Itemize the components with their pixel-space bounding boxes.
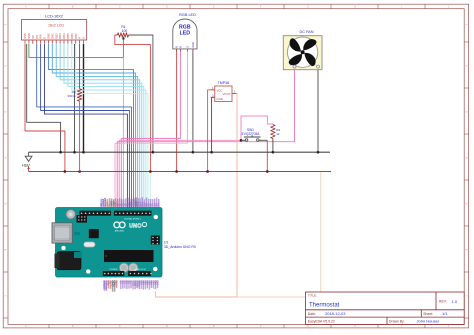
- svg-text:330 Ω: 330 Ω: [67, 94, 76, 98]
- wire LCD DB7 to Arduino: [76, 44, 148, 208]
- svg-text:1: 1: [465, 24, 469, 26]
- svg-text:A: A: [25, 325, 27, 328]
- svg-text:1/1: 1/1: [442, 311, 448, 316]
- svg-text:C: C: [119, 325, 121, 328]
- resistor R3 330 ohm (LCD backlight): [67, 44, 81, 172]
- wire LCD K to ground rail (thick): [83, 44, 85, 152]
- wire RGB LED pin3 to Arduino (light pink): [115, 49, 188, 208]
- ground rail net: [29, 151, 330, 153]
- wire LCD pin to Arduino (blue, x=127.4): [45, 44, 128, 208]
- wire LCD RW to ground rail: [74, 44, 76, 152]
- svg-text:DIGITAL (PWM~): DIGITAL (PWM~): [124, 217, 141, 220]
- svg-text:4: 4: [3, 157, 7, 159]
- svg-text:Drawn By:: Drawn By:: [389, 319, 405, 323]
- svg-text:GND: GND: [216, 97, 224, 101]
- wire RGB LED pin2 to Arduino (pink): [121, 49, 180, 208]
- svg-text:DC FAN: DC FAN: [300, 30, 314, 34]
- svg-text:D: D: [166, 5, 168, 8]
- RGB LED: [173, 13, 197, 52]
- svg-text:Sheet:: Sheet:: [423, 312, 433, 316]
- svg-text:E: E: [213, 325, 215, 328]
- svg-text:John Houser: John Houser: [417, 319, 440, 324]
- svg-text:G: G: [186, 46, 190, 48]
- svg-text:EasyEDA V5.9.22: EasyEDA V5.9.22: [308, 319, 335, 323]
- svg-text:1: 1: [3, 24, 7, 26]
- wire R1 left to +5V rail (red): [115, 35, 151, 172]
- +5V rail net: [29, 171, 331, 173]
- svg-text:+5V: +5V: [22, 163, 31, 168]
- svg-text:3: 3: [3, 111, 7, 113]
- svg-text:1k: 1k: [276, 132, 280, 136]
- svg-text:C: C: [119, 5, 121, 8]
- wire fan - to ground rail: [317, 70, 319, 153]
- svg-text:EVQ22705A: EVQ22705A: [242, 132, 261, 136]
- temperature sensor TMP36: [211, 81, 237, 101]
- wire LCD DB4 to Arduino: [64, 44, 142, 208]
- svg-text:2: 2: [465, 65, 469, 67]
- node junction green wire at R1: [122, 36, 125, 57]
- svg-text:2018-12-03: 2018-12-03: [325, 311, 346, 316]
- svg-text:J: J: [448, 5, 450, 8]
- svg-text:5: 5: [3, 203, 7, 205]
- svg-text:4: 4: [465, 157, 469, 159]
- svg-text:Thermostat: Thermostat: [309, 302, 340, 308]
- resistor R2 1k: [271, 125, 281, 139]
- wire SW1 node to Arduino (pink): [119, 140, 241, 207]
- svg-text:VOUT: VOUT: [222, 92, 231, 96]
- title block: [306, 292, 465, 324]
- svg-text:H: H: [354, 325, 356, 328]
- ground symbol: [25, 152, 32, 161]
- wire R1 node down to Arduino D-pin (lavender): [122, 58, 124, 208]
- svg-text:K: K: [82, 37, 86, 39]
- wire LCD A to R1 (green): [29, 44, 124, 58]
- svg-text:16x2 LCD: 16x2 LCD: [48, 23, 64, 27]
- svg-text:F: F: [260, 5, 262, 8]
- +5V power symbol: [22, 163, 31, 172]
- svg-text:LCD-16X2: LCD-16X2: [45, 15, 63, 19]
- junction dots on +5V rail: [64, 170, 269, 173]
- svg-text:F: F: [260, 325, 262, 328]
- svg-text:B: B: [72, 325, 74, 328]
- svg-text:TITLE:: TITLE:: [308, 294, 317, 298]
- svg-text:G: G: [307, 5, 309, 8]
- svg-text:I: I: [401, 5, 402, 8]
- svg-text:ANALOG IN: ANALOG IN: [135, 268, 146, 271]
- svg-text:D: D: [166, 325, 168, 328]
- wire fan + to Arduino (pink): [117, 70, 294, 208]
- Arduino designator U1: [164, 240, 196, 248]
- Arduino bottom pin labels: [102, 280, 159, 292]
- svg-text:REV:: REV:: [439, 300, 447, 304]
- wire LCD DB3 to Arduino: [60, 44, 140, 208]
- wire LCD DB1 to Arduino: [52, 44, 135, 208]
- wire +5V rail to Arduino pin (teal): [149, 172, 151, 208]
- wire salmon branch right vertical: [237, 172, 321, 297]
- svg-text:R: R: [178, 46, 182, 48]
- svg-text:H: H: [354, 5, 356, 8]
- svg-text:U1: U1: [164, 240, 168, 244]
- svg-text:TMP36: TMP36: [218, 81, 230, 85]
- svg-text:B: B: [175, 46, 179, 48]
- svg-text:E: E: [213, 5, 215, 8]
- svg-text:VIN: VIN: [114, 281, 118, 286]
- svg-text:3D_Arduino UNO R3: 3D_Arduino UNO R3: [164, 245, 196, 249]
- svg-text:Date:: Date:: [308, 312, 316, 316]
- wire SW1 right to +5V rail (red): [266, 140, 268, 171]
- svg-text:G: G: [307, 325, 309, 328]
- svg-text:3: 3: [212, 93, 214, 97]
- wire LCD pin to Arduino (blue, x=131.5): [37, 44, 132, 208]
- junction dots on ground rail: [59, 151, 319, 154]
- junction dot SW1 node: [240, 139, 243, 142]
- svg-text:B: B: [72, 5, 74, 8]
- wire SW1 node loop to R2 top (pink): [241, 116, 273, 140]
- svg-text:I: I: [401, 325, 402, 328]
- Arduino top pin labels: [99, 197, 160, 207]
- wire R2 bottom to ground rail: [272, 139, 274, 153]
- svg-text:UNO: UNO: [129, 223, 142, 229]
- svg-text:POWER: POWER: [110, 269, 118, 271]
- svg-text:5: 5: [465, 203, 469, 205]
- wire LCD VSS to ground rail: [27, 44, 61, 152]
- wire LCD VDD to +5V rail: [25, 44, 65, 172]
- wire TMP36 GND to ground rail: [212, 97, 215, 152]
- wire TMP36 VOUT to Arduino A0 (salmon): [155, 94, 237, 298]
- svg-text:1.0: 1.0: [452, 299, 458, 304]
- svg-text:NC: NC: [155, 281, 159, 285]
- wire LCD DB6 to Arduino: [72, 44, 146, 208]
- wire RGB LED pin4 to ground rail: [192, 49, 194, 152]
- svg-text:A: A: [25, 5, 27, 8]
- resistor R1 100: [115, 25, 129, 37]
- svg-text:2: 2: [3, 65, 7, 67]
- wire LCD DB2 to Arduino: [56, 44, 137, 208]
- svg-text:2: 2: [234, 90, 236, 94]
- svg-text:ARDUINO: ARDUINO: [115, 230, 125, 233]
- LCD display LCD-16X2: [21, 15, 86, 44]
- wire LCD DB0 to Arduino: [48, 44, 133, 208]
- wire R1 right to ground rail (gray): [129, 35, 153, 152]
- Arduino UNO R3 U1: [52, 208, 162, 278]
- wire LCD pin to Arduino (blue, x=129.4): [41, 44, 130, 208]
- wire LCD DB5 to Arduino: [68, 44, 144, 208]
- svg-text:3: 3: [465, 111, 469, 113]
- svg-text:6: 6: [3, 249, 7, 251]
- svg-text:J: J: [448, 325, 450, 328]
- svg-text:7: 7: [465, 295, 469, 297]
- svg-text:6: 6: [465, 249, 469, 251]
- svg-text:D3: D3: [156, 203, 160, 207]
- wire RGB LED pin1 to +5V rail: [176, 49, 178, 172]
- svg-text:LED: LED: [180, 31, 191, 37]
- svg-text:7: 7: [3, 295, 7, 297]
- wire TMP36 VCC to +5V rail: [208, 90, 215, 172]
- switch SW1 EVQ22705A: [241, 128, 267, 141]
- svg-text:RGB LED: RGB LED: [179, 13, 196, 17]
- DC fan motor: [283, 30, 322, 70]
- svg-text:GND: GND: [191, 42, 195, 48]
- svg-text:1: 1: [212, 86, 214, 90]
